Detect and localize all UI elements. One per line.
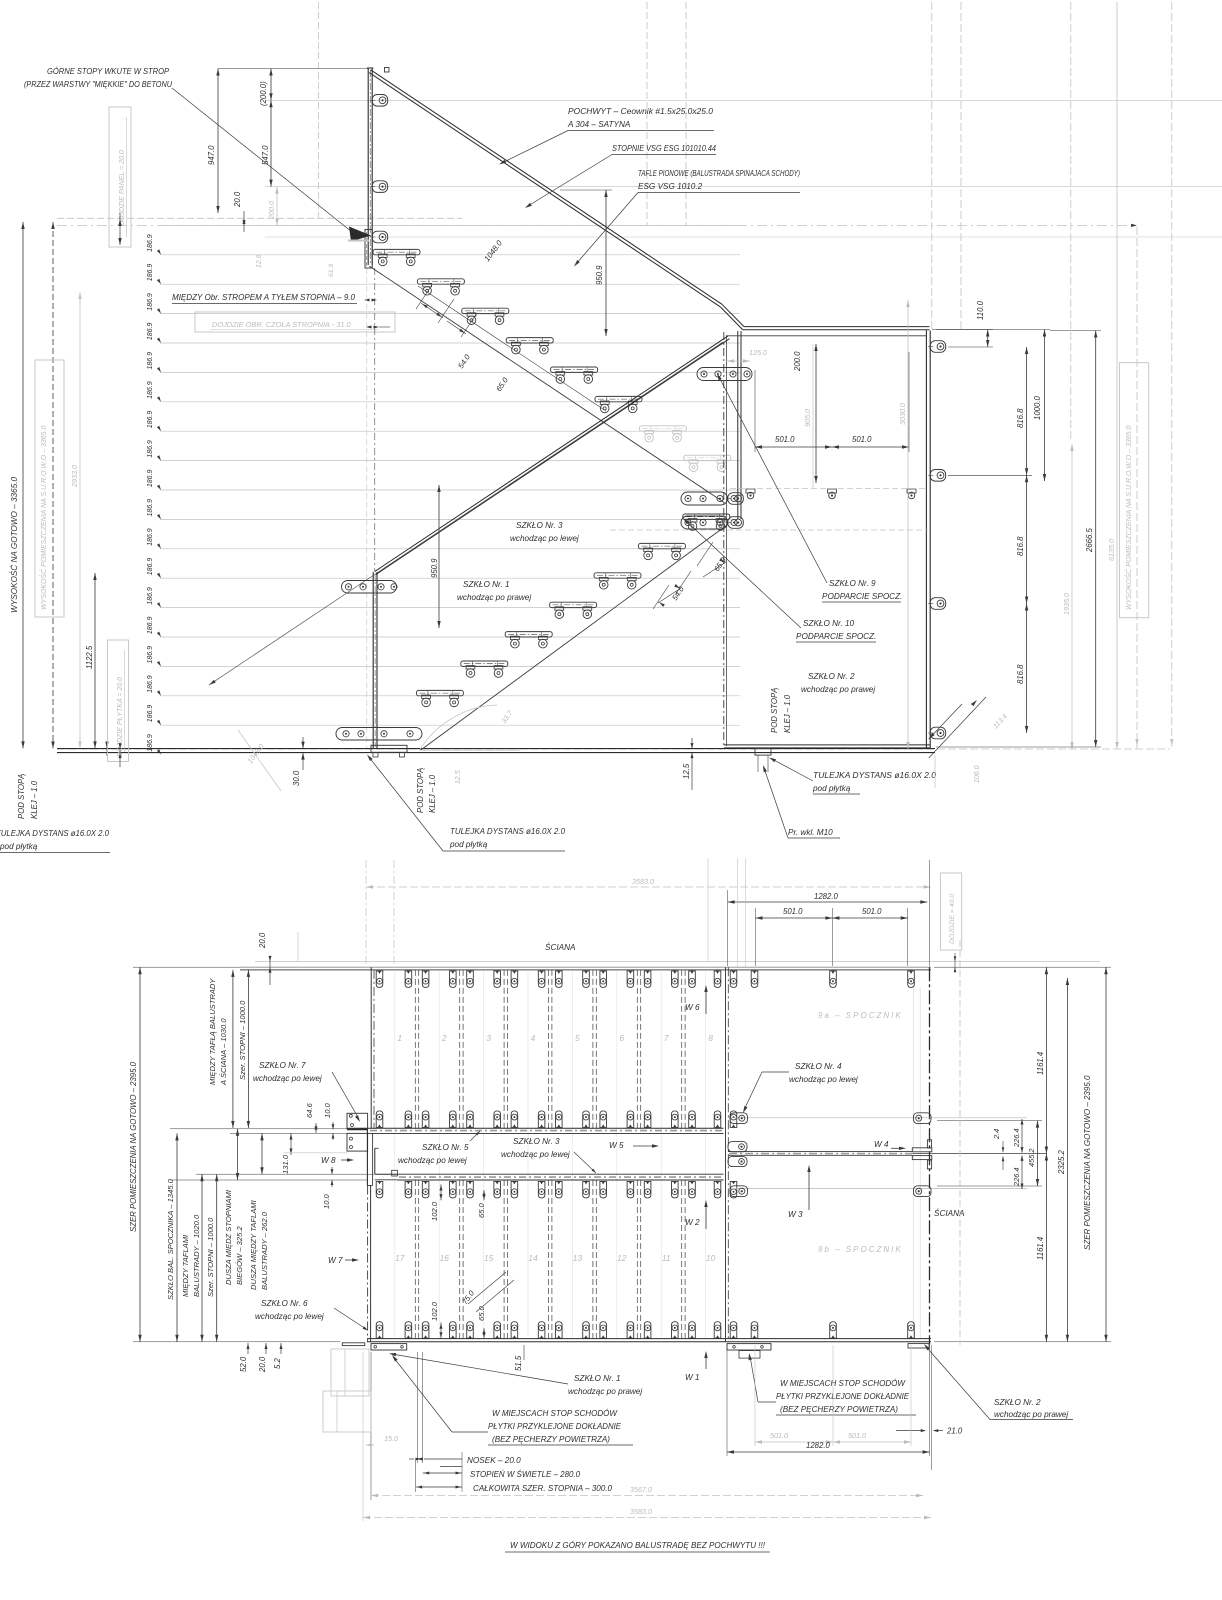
riser grid lines — [160, 225, 740, 725]
landing glass bar — [728, 1152, 1047, 1156]
label SZKLO Nr 6 — [255, 1299, 368, 1331]
svg-text:W 8: W 8 — [321, 1156, 336, 1165]
svg-text:102.0: 102.0 — [430, 1201, 439, 1221]
label W4 — [874, 1140, 906, 1150]
step bracket F2-2 — [461, 661, 508, 677]
dim 200.0 landing — [793, 344, 818, 483]
svg-text:6: 6 — [619, 1033, 624, 1043]
svg-text:947.0: 947.0 — [207, 145, 216, 165]
svg-text:3: 3 — [486, 1033, 491, 1043]
landing wall lug 2 — [928, 470, 946, 482]
svg-text:DUSZA MIĘDZ STOPNIAMI: DUSZA MIĘDZ STOPNIAMI — [224, 1189, 233, 1285]
landing bottom-left bracket — [727, 1344, 771, 1359]
dim 1048.0 flight1 — [418, 238, 606, 411]
leader DOJDZIE panel — [118, 213, 121, 245]
svg-text:wchodząc po lewej: wchodząc po lewej — [789, 1075, 858, 1084]
svg-text:1161.4: 1161.4 — [1036, 1236, 1045, 1260]
plan bottom edge — [367, 1339, 931, 1342]
label W MIEJSCACH right — [749, 1353, 917, 1415]
step bracket F1-1 — [373, 249, 420, 265]
landing separator edge — [726, 967, 729, 1342]
svg-text:10.0: 10.0 — [323, 1102, 332, 1118]
dim 110.0 — [932, 300, 993, 347]
szklo7 plate — [347, 1113, 368, 1129]
svg-text:Pr. wkl. M10: Pr. wkl. M10 — [788, 828, 833, 837]
svg-text:186.9: 186.9 — [147, 499, 154, 517]
svg-text:30.0: 30.0 — [292, 770, 301, 786]
svg-text:DUSZA MIĘDZY TAFLAMI: DUSZA MIĘDZY TAFLAMI — [249, 1199, 258, 1290]
svg-text:14: 14 — [528, 1253, 538, 1263]
box DOJDZIE PLYTKA 20.0 — [108, 640, 129, 762]
dim 75.0 — [460, 1272, 514, 1312]
svg-text:1161.4: 1161.4 — [1036, 1051, 1045, 1075]
lug row band1 bottom — [376, 1111, 737, 1128]
label 9b spocznik — [818, 1245, 903, 1254]
svg-text:186.9: 186.9 — [147, 381, 154, 399]
box WYSOKOSC POMIESZCZENIA SUROWO — [35, 360, 64, 617]
svg-text:816.8: 816.8 — [1016, 408, 1025, 428]
svg-text:PŁYTKI PRZYKLEJONE DOKŁADNIE: PŁYTKI PRZYKLEJONE DOKŁADNIE — [488, 1422, 622, 1431]
svg-text:3583.0: 3583.0 — [632, 877, 654, 886]
label SZKLO Nr 7 — [253, 1061, 360, 1122]
svg-text:BIEGÓW – 325.2: BIEGÓW – 325.2 — [235, 1226, 244, 1285]
dim CALKOWITA SZER — [416, 1459, 613, 1493]
dim SZKLO BAL SPOCZNIKA — [166, 1133, 179, 1341]
dim 1048.0 light flight2 — [238, 730, 281, 791]
label POD STOPA KLEJ landing — [770, 688, 792, 733]
dim SZER POMIESZCZENIA plan — [129, 967, 142, 1342]
note GORNE STOPY WKUTE W STROP — [24, 66, 172, 89]
dim 501 501 landing — [755, 352, 909, 452]
svg-text:65.0: 65.0 — [477, 1305, 486, 1321]
svg-text:186.9: 186.9 — [147, 322, 154, 340]
svg-text:SZKŁO Nr. 3: SZKŁO Nr. 3 — [516, 521, 563, 530]
svg-text:2933.0: 2933.0 — [70, 465, 79, 488]
svg-text:3583.0: 3583.0 — [630, 1507, 652, 1516]
svg-text:WYSOKOŚĆ POMIESZCZENIA NA S.U: WYSOKOŚĆ POMIESZCZENIA NA S.U.R.O.W.O – … — [39, 426, 48, 610]
label W MIEJSCACH left — [392, 1355, 633, 1445]
svg-text:W 6: W 6 — [685, 1003, 700, 1012]
svg-text:KLEJ – 1.0: KLEJ – 1.0 — [783, 694, 792, 733]
dim 65.0 a — [477, 1190, 486, 1218]
rail2 extension leader — [209, 342, 723, 685]
svg-text:CAŁKOWITA SZER. STOPNIA – 300.: CAŁKOWITA SZER. STOPNIA – 300.0 — [473, 1484, 612, 1493]
dim 905.0 light — [803, 344, 813, 488]
svg-text:15.0: 15.0 — [384, 1434, 398, 1443]
svg-text:186.9: 186.9 — [147, 675, 154, 693]
svg-text:pod płytką: pod płytką — [449, 840, 488, 849]
svg-text:PODPARCIE SPOCZ.: PODPARCIE SPOCZ. — [822, 592, 902, 601]
landing handrail — [743, 327, 930, 330]
anchor arrow — [348, 227, 371, 242]
landing lower construction line — [610, 529, 928, 531]
lower post panel edge — [373, 572, 377, 749]
svg-text:21.0: 21.0 — [946, 1427, 963, 1436]
dim 547.0 — [261, 100, 273, 186]
svg-text:12.5: 12.5 — [455, 770, 462, 784]
dim 20.0 plan top — [258, 932, 272, 985]
label TULEJKA mid — [367, 755, 565, 852]
label SZKLO Nr 3 — [510, 521, 579, 543]
note TAFLE PIONOWE — [574, 169, 800, 267]
riser 186.9 labels — [147, 234, 161, 754]
svg-text:102.0: 102.0 — [430, 1301, 439, 1321]
svg-text:(200.0): (200.0) — [259, 81, 268, 106]
dim 21.0 — [896, 1427, 963, 1436]
svg-text:wchodząc po lewej: wchodząc po lewej — [501, 1150, 570, 1159]
landing right mid plates — [912, 1140, 932, 1169]
svg-text:20.0: 20.0 — [233, 191, 242, 208]
dim MIEDZY TAFLAMI 1020 — [181, 1174, 204, 1342]
svg-text:TULEJKA DYSTANS ø16.0X 2.0: TULEJKA DYSTANS ø16.0X 2.0 — [813, 771, 936, 780]
szklo7 plate2 — [347, 1133, 368, 1151]
svg-text:10.0: 10.0 — [322, 1193, 331, 1209]
svg-text:12.5: 12.5 — [682, 763, 691, 779]
svg-text:SZKŁO Nr. 5: SZKŁO Nr. 5 — [422, 1143, 469, 1152]
landing glass left edge — [724, 332, 727, 746]
dim chain 816.8 x3 1000 — [1016, 347, 1028, 733]
step bracket F1-4 — [506, 338, 553, 354]
svg-text:W WIDOKU Z GÓRY POKAZANO BALUS: W WIDOKU Z GÓRY POKAZANO BALUSTRADĘ BEZ … — [510, 1540, 766, 1550]
svg-text:186.9: 186.9 — [147, 616, 154, 634]
label SZKLO Nr 1 plan — [389, 1353, 642, 1396]
svg-text:A ŚCIANA – 1030.0: A ŚCIANA – 1030.0 — [219, 1018, 228, 1086]
svg-text:3567.0: 3567.0 — [630, 1485, 652, 1494]
dim 15.0 light — [366, 1434, 398, 1446]
svg-text:SZKŁO Nr. 1: SZKŁO Nr. 1 — [463, 580, 510, 589]
svg-text:186.9: 186.9 — [147, 352, 154, 370]
svg-text:pod płytką: pod płytką — [0, 842, 38, 851]
dim 12.5 landing — [682, 738, 694, 790]
top post panel edge — [367, 68, 374, 265]
svg-text:501.0: 501.0 — [783, 907, 803, 916]
svg-text:226.4: 226.4 — [1012, 1129, 1021, 1149]
svg-text:2: 2 — [441, 1033, 447, 1043]
svg-text:PŁYTKI PRZYKLEJONE DOKŁADNIE: PŁYTKI PRZYKLEJONE DOKŁADNIE — [776, 1392, 910, 1401]
svg-text:7: 7 — [664, 1033, 669, 1043]
svg-text:WYSOKOŚĆ NA GOTOWO – 3365.0: WYSOKOŚĆ NA GOTOWO – 3365.0 — [8, 477, 19, 613]
svg-text:1122.5: 1122.5 — [85, 645, 94, 669]
svg-text:186.9: 186.9 — [147, 528, 154, 546]
label W5 — [609, 1141, 659, 1150]
svg-text:501.0: 501.0 — [770, 1431, 788, 1440]
svg-text:SZER POMIESZCZENIA NA GOTOWO: SZER POMIESZCZENIA NA GOTOWO – 2395.0 — [1083, 1075, 1092, 1250]
step bracket F1-3 — [462, 308, 509, 324]
svg-text:186.9: 186.9 — [147, 440, 154, 458]
dim Szer STOPNI 1000 bot — [206, 1174, 218, 1342]
svg-text:2666.5: 2666.5 — [1085, 527, 1094, 553]
svg-text:186.9: 186.9 — [147, 646, 154, 664]
handrail flight2 — [375, 336, 730, 575]
svg-text:9a – SPOCZNIK: 9a – SPOCZNIK — [818, 1011, 903, 1020]
svg-text:12: 12 — [617, 1253, 627, 1263]
label SZKLO Nr 3 plan — [501, 1137, 596, 1173]
svg-text:106.0: 106.0 — [974, 765, 981, 783]
step bracket F1-8 — [684, 455, 731, 471]
svg-text:MIĘDZY Obr. STROPEM A TYŁEM ST: MIĘDZY Obr. STROPEM A TYŁEM STOPNIA – 9.… — [172, 293, 355, 302]
cluster side lugs — [726, 493, 744, 529]
svg-text:PODPARCIE SPOCZ.: PODPARCIE SPOCZ. — [796, 632, 876, 641]
light 61.9 label — [328, 264, 335, 277]
floor construction dashed line — [57, 748, 1170, 750]
dim 10.0 b — [322, 1167, 333, 1209]
svg-text:NOSEK – 20.0: NOSEK – 20.0 — [467, 1456, 521, 1465]
svg-text:SZER POMIESZCZENIA NA GOTOWO: SZER POMIESZCZENIA NA GOTOWO – 2395.0 — [129, 1061, 138, 1232]
dim MIEDZY TAFLA 1030 — [208, 970, 235, 1128]
svg-text:816.8: 816.8 — [1016, 664, 1025, 684]
svg-text:1282.0: 1282.0 — [814, 892, 839, 901]
step separators — [415, 970, 685, 1339]
svg-text:501.0: 501.0 — [852, 435, 872, 444]
svg-text:(BEZ PĘCHERZY POWIETRZA): (BEZ PĘCHERZY POWIETRZA) — [780, 1405, 898, 1414]
dim DUSZA MIEDZ STOPNIAMI — [224, 1129, 244, 1285]
landing mid construction line — [730, 488, 928, 490]
svg-text:186.9: 186.9 — [147, 234, 154, 252]
light 12.5 mid — [455, 770, 462, 784]
svg-text:W MIEJSCACH STOP SCHODÓW: W MIEJSCACH STOP SCHODÓW — [780, 1378, 906, 1388]
plan left edge band1 — [371, 967, 374, 1129]
svg-text:A 304 – SATYNA: A 304 – SATYNA — [567, 120, 631, 129]
svg-text:547.0: 547.0 — [261, 145, 270, 165]
dim 131.0 — [281, 1133, 293, 1174]
svg-text:SZKŁO Nr. 2: SZKŁO Nr. 2 — [994, 1398, 1041, 1407]
svg-text:186.9: 186.9 — [147, 469, 154, 487]
svg-text:KLEJ – 1.0: KLEJ – 1.0 — [30, 780, 39, 819]
svg-text:10: 10 — [706, 1253, 716, 1263]
dim 54.0 flight1 — [416, 285, 472, 370]
svg-text:ESG VSG 1010.2: ESG VSG 1010.2 — [638, 182, 703, 191]
label SCIANA top — [545, 941, 576, 952]
svg-text:51.5: 51.5 — [514, 1355, 523, 1371]
svg-text:226.4: 226.4 — [1012, 1168, 1021, 1188]
label W8 — [321, 1156, 354, 1165]
dim 65.0 flight1 — [447, 313, 510, 393]
label 9a spocznik — [818, 1011, 903, 1020]
svg-text:501.0: 501.0 — [775, 435, 795, 444]
note POCHWYT — [499, 107, 714, 165]
svg-text:POCHWYT – Ceownik #1.5x25.0x25: POCHWYT – Ceownik #1.5x25.0x25.0 — [568, 107, 713, 116]
corridor L bracket — [347, 1129, 397, 1185]
angle arc 33.7 — [420, 705, 521, 750]
dim 3567.0 light — [371, 1485, 923, 1497]
landing glass light edges — [913, 988, 920, 1338]
flight2 glass right edge — [738, 331, 741, 519]
box DOJDZIE OBR CZOLA STROPNIA — [195, 312, 395, 332]
dim 65.0 flight2 — [697, 542, 728, 577]
svg-text:TAFLE PIONOWE (BALUSTRADA SPIN: TAFLE PIONOWE (BALUSTRADA SPINAJACA SCHO… — [638, 169, 800, 178]
step bracket F1-7 — [639, 426, 686, 442]
upper right dashed verticals — [932, 2, 1071, 442]
svg-text:TULEJKA DYSTANS ø16.0X 2.0: TULEJKA DYSTANS ø16.0X 2.0 — [0, 829, 109, 838]
svg-text:65.0: 65.0 — [477, 1202, 486, 1218]
plan left edge band2 — [368, 1186, 371, 1342]
svg-text:wchodząc po lewej: wchodząc po lewej — [253, 1074, 322, 1083]
plan ext lines left — [133, 967, 374, 1342]
svg-text:SZKŁO Nr. 10: SZKŁO Nr. 10 — [803, 619, 855, 628]
top panel bolt construction lines — [265, 100, 1222, 237]
svg-text:wchodząc po prawej: wchodząc po prawej — [568, 1387, 642, 1396]
label POD STOPA KLEJ mid — [416, 768, 437, 813]
svg-text:110.0: 110.0 — [976, 300, 985, 320]
lug row band2 top — [376, 1181, 737, 1198]
dim 65.0 b — [477, 1305, 486, 1338]
label W7 — [328, 1256, 359, 1265]
svg-text:125.0: 125.0 — [749, 348, 767, 357]
dim 1161.4 x2 — [1036, 967, 1048, 1342]
label SZKLO Nr 9 — [717, 374, 902, 603]
light ghost step a — [331, 1349, 369, 1396]
kink step plate — [697, 368, 752, 381]
box WYSOKOSC SUROWO right — [1119, 363, 1148, 618]
svg-text:186.9: 186.9 — [147, 293, 154, 311]
svg-text:ŚCIANA: ŚCIANA — [545, 941, 576, 952]
note STOPNIE VSG — [525, 144, 716, 208]
floor line — [57, 749, 935, 753]
svg-text:1: 1 — [397, 1033, 402, 1043]
svg-text:POD STOPĄ: POD STOPĄ — [770, 688, 779, 733]
svg-text:186.9: 186.9 — [147, 705, 154, 723]
svg-text:SZKŁO Nr. 2: SZKŁO Nr. 2 — [808, 672, 855, 681]
svg-text:W MIEJSCACH STOP SCHODÓW: W MIEJSCACH STOP SCHODÓW — [492, 1408, 618, 1418]
svg-text:wchodząc po lewej: wchodząc po lewej — [510, 534, 579, 543]
dim 1000.0 — [936, 330, 1050, 482]
dim 113.4 light — [929, 697, 1009, 758]
svg-text:W 7: W 7 — [328, 1256, 343, 1265]
svg-text:MIĘDZY TAFŁĄ BALUSTRADY: MIĘDZY TAFŁĄ BALUSTRADY — [208, 978, 217, 1085]
svg-text:186.9: 186.9 — [147, 264, 154, 282]
svg-text:wchodząc po prawej: wchodząc po prawej — [994, 1410, 1068, 1419]
svg-text:Szer. STOPNI – 1000.0: Szer. STOPNI – 1000.0 — [238, 1000, 247, 1080]
step bracket F2-7 — [683, 514, 730, 530]
lower post bottom plate — [336, 728, 422, 741]
label W1 — [685, 1351, 708, 1382]
svg-text:W 3: W 3 — [788, 1210, 803, 1219]
dim 3583.0 light — [363, 1507, 931, 1519]
dim 52.0 — [239, 1343, 250, 1372]
right tall dashed construction verticals — [1135, 2, 1173, 749]
label W3 — [788, 1165, 811, 1219]
svg-text:950.9: 950.9 — [595, 265, 604, 285]
stringer flight2 — [420, 525, 727, 750]
label Pr wkl M10 — [763, 765, 840, 838]
dim 10.0 a — [323, 1102, 334, 1140]
dim 3583.0 light top — [366, 877, 931, 889]
dim 20.0 bot — [258, 1343, 268, 1373]
dim 950.9 flight2 — [430, 485, 441, 628]
light 12.6 label — [256, 254, 263, 268]
footer note — [505, 1540, 770, 1552]
svg-text:wchodząc po lewej: wchodząc po lewej — [398, 1156, 467, 1165]
dim 3030.0 light — [898, 300, 910, 749]
svg-text:2325.2: 2325.2 — [1057, 1149, 1066, 1175]
dim 455.2 — [1027, 1121, 1039, 1186]
svg-text:5: 5 — [575, 1033, 580, 1043]
plan right wall edge — [929, 967, 931, 1345]
box DOJDZIE PANEL 20.0 — [109, 107, 131, 247]
dim 1282.0 bottom — [727, 1441, 930, 1454]
dim 2325.2 — [1057, 978, 1069, 1342]
svg-text:4: 4 — [531, 1033, 536, 1043]
svg-text:W 5: W 5 — [609, 1141, 624, 1150]
bottom left corner bracket — [342, 1343, 406, 1350]
svg-text:64.6: 64.6 — [305, 1102, 314, 1118]
lug row bottom — [376, 1322, 914, 1339]
svg-text:455.2: 455.2 — [1027, 1149, 1036, 1168]
label TULEJKA left — [0, 829, 110, 853]
handrail flight1 — [369, 70, 744, 330]
landing wall lug 4 — [928, 727, 946, 739]
dim 102.0 b — [430, 1301, 443, 1338]
ext verticals below plan — [363, 1345, 932, 1521]
svg-text:2.4: 2.4 — [992, 1129, 1001, 1140]
svg-text:131.0: 131.0 — [281, 1154, 290, 1174]
step numbers — [395, 1033, 716, 1263]
dim 1935.0 light — [1062, 444, 1074, 749]
svg-text:SZKŁO Nr. 9: SZKŁO Nr. 9 — [829, 579, 876, 588]
label W6 — [685, 985, 708, 1014]
dim 950.9 flight1 — [560, 190, 612, 336]
top floor tick marks — [105, 741, 108, 756]
svg-text:STOPNIE VSG ESG 101010.44: STOPNIE VSG ESG 101010.44 — [612, 144, 716, 153]
label SCIANA right — [934, 1207, 965, 1218]
svg-text:SZKŁO Nr. 6: SZKŁO Nr. 6 — [261, 1299, 308, 1308]
step cell centerlines — [395, 972, 706, 1338]
leader to top anchor — [172, 88, 352, 232]
svg-text:15: 15 — [484, 1253, 494, 1263]
svg-text:3030.0: 3030.0 — [898, 403, 907, 425]
dim WYSOKOSC NA GOTOWO 3365.0 — [8, 222, 25, 748]
svg-text:(BEZ PĘCHERZY POWIETRZA): (BEZ PĘCHERZY POWIETRZA) — [492, 1435, 610, 1444]
light ghost step b — [323, 1391, 371, 1432]
landing bottom-right plate — [908, 1344, 929, 1348]
box DOJDZIE 40 — [940, 873, 961, 972]
svg-text:13: 13 — [573, 1253, 583, 1263]
note MIEDZY STROPEM A TYLEM STOPNIA — [172, 293, 377, 304]
svg-text:DOJDZIE OBR. CZOŁA STROPNIA -: DOJDZIE OBR. CZOŁA STROPNIA - 31.0 — [212, 320, 352, 329]
dim 1282.0 top — [728, 892, 928, 904]
label 51.5 — [514, 1345, 524, 1371]
svg-text:905.0: 905.0 — [803, 409, 812, 427]
plan ext lines right — [934, 967, 1111, 1342]
svg-text:Szer. STOPNI – 1000.0: Szer. STOPNI – 1000.0 — [206, 1217, 215, 1297]
svg-text:TULEJKA DYSTANS ø16.0X 2.0: TULEJKA DYSTANS ø16.0X 2.0 — [450, 827, 565, 836]
svg-text:1000.0: 1000.0 — [1033, 395, 1042, 420]
landing lower line — [728, 1188, 1027, 1190]
dim STOPIEN W SWIETLE — [423, 1468, 581, 1479]
label TULEJKA landing — [769, 758, 936, 795]
ext verticals above plan — [708, 858, 930, 966]
dim 947.0 — [207, 69, 368, 214]
corridor bottom bar — [397, 1174, 723, 1180]
landing left mid lugs — [728, 1142, 747, 1167]
svg-text:950.9: 950.9 — [430, 558, 439, 578]
dim 54.0 flight2 — [653, 571, 691, 609]
svg-text:20.0: 20.0 — [258, 932, 267, 949]
dim 2.4 — [992, 1129, 1004, 1170]
landing upper line — [728, 1117, 1027, 1119]
svg-text:8: 8 — [708, 1033, 713, 1043]
lower post top plate — [342, 581, 398, 594]
lower post foot — [371, 745, 407, 757]
landing wall lug 1 — [928, 341, 946, 353]
step bracket F2-1 — [416, 690, 463, 706]
step bracket F2-5 — [594, 573, 641, 589]
svg-text:186.9: 186.9 — [147, 558, 154, 576]
svg-text:SZKŁO Nr. 7: SZKŁO Nr. 7 — [259, 1061, 306, 1070]
svg-text:wchodząc po prawej: wchodząc po prawej — [457, 593, 531, 602]
svg-text:DOJDZIE = 40.0: DOJDZIE = 40.0 — [949, 894, 956, 944]
dim (200.0) — [259, 69, 273, 107]
